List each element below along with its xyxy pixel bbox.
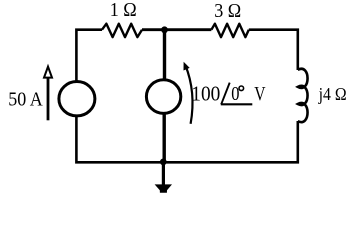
node dot top junction [161,26,168,33]
svg-text:j4 Ω: j4 Ω [318,84,347,104]
current source I1 circle [59,82,95,116]
svg-text:V: V [254,83,265,105]
resistor R1 zigzag 1 ohm [102,24,142,37]
svg-text:50 A: 50 A [8,89,43,111]
angle symbol underline [221,103,253,105]
wire right-bottom segment [164,121,298,162]
current source arrow shaft [47,78,50,120]
wire top-right segment [249,30,298,70]
voltage source reference arrowhead [184,62,190,71]
current source arrow open head [44,67,52,78]
voltage source V1 circle [146,80,180,114]
svg-text:100: 100 [191,81,220,105]
ground symbol head [155,184,172,192]
wire middle-top stub [163,30,166,80]
voltage source reference arrow arc [185,65,192,124]
svg-text:0: 0 [231,83,239,105]
inductor L1 coil [298,69,308,122]
svg-text:3 Ω: 3 Ω [214,0,241,22]
wire middle-bottom stub [162,113,165,162]
wire bottom-left segment [76,117,163,163]
wire top-middle segment [142,28,211,31]
svg-text:1 Ω: 1 Ω [110,0,137,21]
degree mark [239,86,244,91]
resistor R2 zigzag 3 ohm [211,24,248,37]
angle symbol diagonal [221,83,230,105]
node dot bottom junction [160,159,167,166]
wire top-left segment [76,30,102,81]
ground stub [162,162,165,186]
